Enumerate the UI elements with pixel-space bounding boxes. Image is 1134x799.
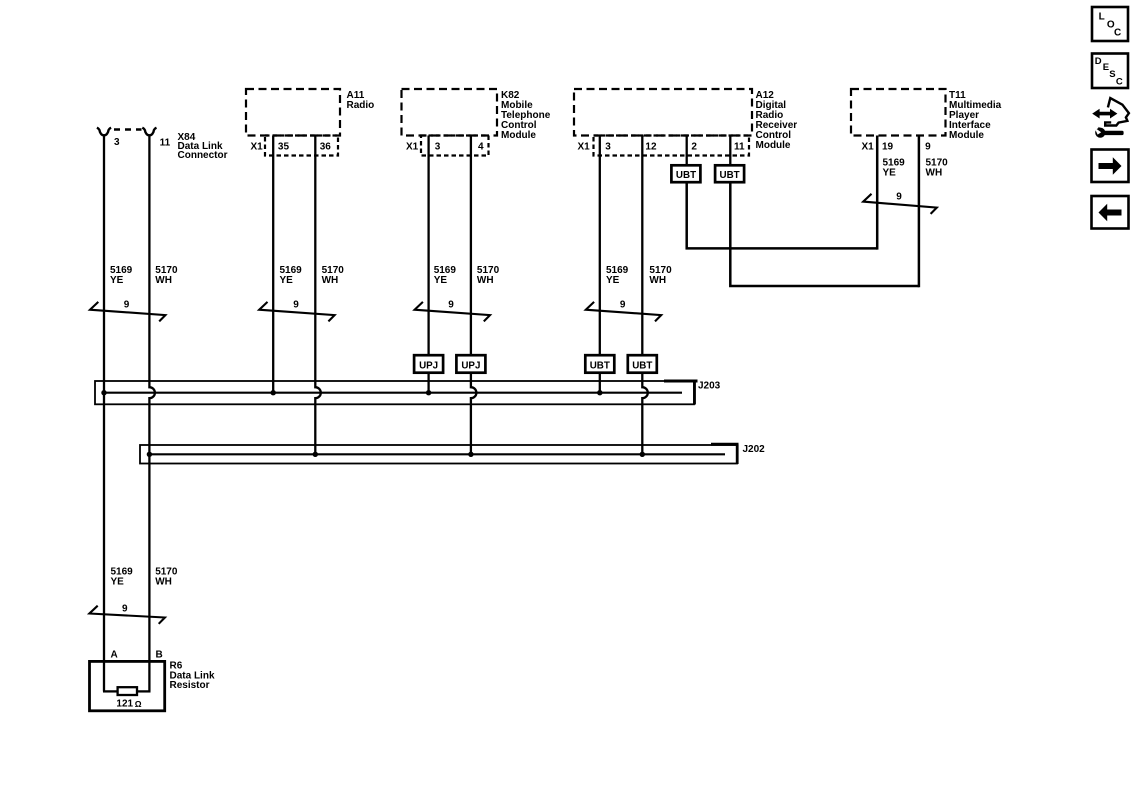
svg-text:YE: YE — [280, 275, 294, 286]
svg-text:35: 35 — [278, 141, 290, 152]
module A12 Digital Radio Receiver Control Module dashed box — [574, 89, 752, 136]
forward arrow icon box — [1092, 150, 1129, 183]
svg-text:UBT: UBT — [590, 361, 610, 372]
wire 5170 WH from T11 pin 9 down to junction with A12 pin 11 wire — [918, 136, 921, 288]
twisted pair marker 9 (R6 column) — [89, 603, 164, 624]
wire R6 pin A to resistor element — [103, 690, 118, 692]
junction dot J202 / A12 wire — [640, 452, 645, 457]
svg-text:E: E — [1103, 62, 1109, 73]
svg-text:J202: J202 — [743, 444, 766, 455]
svg-text:11: 11 — [734, 141, 745, 152]
junction dot J203 / A11 wire — [271, 390, 276, 395]
svg-text:X1: X1 — [406, 141, 419, 152]
svg-text:X1: X1 — [578, 141, 591, 152]
svg-text:9: 9 — [124, 299, 130, 310]
svg-text:YE: YE — [111, 577, 125, 588]
splice pack J203 internal serial data wire — [104, 392, 682, 394]
connector X1 of A12 dashed box — [594, 136, 750, 156]
svg-text:3: 3 — [114, 137, 120, 148]
svg-text:3: 3 — [435, 141, 441, 152]
harness navigation icon (double arrow, part outline, wrench) — [1092, 98, 1129, 138]
svg-text:D: D — [1095, 56, 1102, 67]
splice pack J202 outline — [140, 445, 737, 464]
wire 5170 WH from X84 pin 11 to R6 pin B (hops J203) — [149, 135, 155, 691]
junction dot J202 / K82 wire — [468, 452, 473, 457]
wire 5169 YE from A11 pin 35 to J203 — [272, 136, 274, 393]
svg-text:121: 121 — [116, 699, 133, 710]
svg-text:UBT: UBT — [632, 361, 652, 372]
splice pack J203 outline — [95, 381, 694, 404]
svg-text:YE: YE — [606, 275, 620, 286]
module T11 Multimedia Player Interface Module dashed box — [851, 89, 946, 136]
svg-text:9: 9 — [122, 603, 128, 614]
svg-text:4: 4 — [478, 141, 484, 152]
svg-text:YE: YE — [110, 275, 124, 286]
back arrow icon box — [1092, 196, 1129, 229]
wire 5170 WH from K82 pin 4 to J202 via UPJ (hops J203) — [470, 136, 472, 356]
junction dot J202 / X84 wire — [147, 452, 152, 457]
svg-text:Module: Module — [501, 130, 536, 141]
svg-text:3: 3 — [605, 141, 611, 152]
connector X1 of K82 dashed box — [421, 136, 489, 156]
connector X84 pin 11 terminal cup — [142, 128, 156, 136]
junction dot J202 / A11 wire — [313, 452, 318, 457]
svg-text:9: 9 — [925, 141, 931, 152]
svg-text:J203: J203 — [698, 380, 721, 391]
splice pack J202 label tag — [711, 443, 739, 446]
twisted pair marker 9 (T11 column) — [863, 192, 937, 214]
svg-text:9: 9 — [620, 299, 626, 310]
R6 internal resistor element — [118, 687, 137, 695]
svg-text:Module: Module — [756, 140, 791, 151]
svg-text:UBT: UBT — [720, 170, 740, 181]
svg-text:UPJ: UPJ — [461, 361, 480, 372]
fuse symbol UBT box on A12 pin 11 wire — [715, 165, 744, 182]
svg-text:X1: X1 — [862, 141, 875, 152]
DESC navigation icon box — [1092, 54, 1128, 89]
svg-text:B: B — [156, 650, 163, 661]
wire 5169 YE from T11 pin 19 down to junction with A12 pin 2 wire — [876, 136, 879, 250]
junction dot J203 / K82 wire — [426, 390, 431, 395]
svg-text:9: 9 — [896, 192, 902, 203]
splice pack J202 internal serial data wire — [149, 453, 725, 455]
connector UBT box on A12 pin 12 wire — [628, 355, 657, 373]
svg-text:Ω: Ω — [135, 699, 142, 709]
wire 5169 YE from K82 pin 3 to J203 via UPJ — [427, 136, 429, 356]
svg-text:WH: WH — [477, 275, 494, 286]
wire 5169 YE from A12 pin 3 to J203 via UBT — [599, 136, 601, 356]
resistor R6 Data Link Resistor box — [90, 661, 165, 710]
svg-text:11: 11 — [160, 137, 171, 148]
svg-text:C: C — [1114, 28, 1121, 39]
wire R6 pin B to resistor element — [137, 690, 151, 692]
svg-text:36: 36 — [320, 141, 332, 152]
twisted pair marker 9 (K82 column) — [415, 299, 490, 321]
svg-text:Connector: Connector — [178, 150, 228, 161]
svg-text:S: S — [1109, 69, 1115, 80]
svg-text:9: 9 — [448, 299, 454, 310]
twisted pair marker 9 (X84 column) — [90, 299, 165, 321]
twisted pair marker 9 (A12 column) — [586, 299, 661, 321]
twisted pair marker 9 (A11 column) — [259, 299, 334, 321]
wire 5170 WH from A12 pin 12 to J202 via UBT (hops J203) — [641, 136, 643, 356]
splice pack J203 label tag — [664, 380, 698, 383]
svg-text:X1: X1 — [251, 141, 264, 152]
wire 5169 YE from X84 pin 3 to R6 pin A — [103, 135, 105, 691]
svg-text:Radio: Radio — [347, 100, 375, 111]
svg-text:YE: YE — [883, 168, 897, 179]
wire 5170 WH from A11 pin 36 to J202 (hops J203) — [315, 136, 321, 455]
svg-text:Module: Module — [949, 130, 984, 141]
module K82 Mobile Telephone Control Module dashed box — [402, 89, 498, 136]
connector X84 pin 3 terminal cup — [97, 128, 111, 136]
connector UPJ box on K82 pin 4 wire — [456, 355, 485, 373]
svg-text:9: 9 — [293, 299, 299, 310]
svg-text:WH: WH — [926, 168, 943, 179]
connector UBT box on A12 pin 3 wire — [585, 355, 614, 373]
svg-text:WH: WH — [322, 275, 339, 286]
svg-text:A: A — [111, 650, 118, 661]
connector X1 of A11 dashed box — [265, 136, 338, 156]
module A11 Radio dashed box — [246, 89, 340, 136]
svg-text:19: 19 — [882, 141, 894, 152]
connector UPJ box on K82 pin 3 wire — [414, 355, 443, 373]
wire 5170 WH from A12 pin 11 via UBT to T11 pin 9 — [729, 136, 731, 166]
LOC navigation icon box — [1092, 7, 1128, 41]
svg-text:C: C — [1116, 77, 1123, 88]
junction dot J203 / A12 wire — [597, 390, 602, 395]
X84 dashed connector link line — [114, 128, 142, 130]
fuse symbol UBT box on A12 pin 2 wire — [671, 165, 700, 182]
svg-text:L: L — [1099, 11, 1105, 22]
junction dot J203 / X84 wire — [101, 390, 106, 395]
wire 5169 YE from A12 pin 2 via UBT to T11 pin 19 — [686, 136, 688, 166]
svg-text:12: 12 — [645, 141, 657, 152]
svg-text:WH: WH — [155, 577, 172, 588]
svg-text:UBT: UBT — [676, 170, 696, 181]
svg-text:2: 2 — [691, 141, 697, 152]
svg-text:Resistor: Resistor — [170, 680, 210, 691]
svg-text:YE: YE — [434, 275, 448, 286]
svg-text:WH: WH — [649, 275, 666, 286]
svg-text:WH: WH — [155, 275, 172, 286]
svg-text:UPJ: UPJ — [419, 361, 438, 372]
